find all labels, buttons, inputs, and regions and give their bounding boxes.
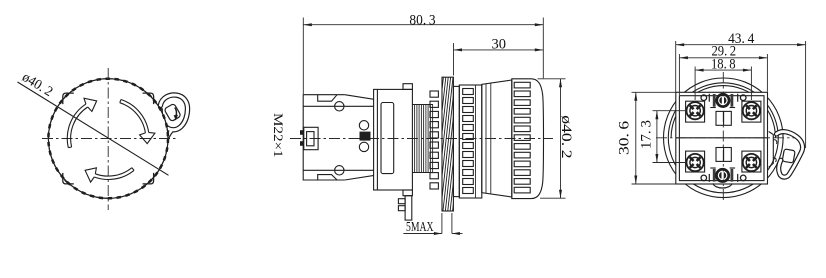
rear view: terminal screw (top-right) with pocket	[742, 101, 761, 122]
front view: rotation arrow (upper left)	[67, 104, 87, 148]
rear view: keyhole slots	[701, 94, 746, 182]
rear view: terminal screw (bottom-right) with pocket	[742, 151, 761, 172]
side view: mounting thread M22	[412, 105, 433, 173]
rear view: dimension 29.2	[679, 43, 767, 95]
front view: release latch lever (right side)	[160, 95, 187, 143]
side view: panel cross-section (hatched)	[428, 72, 487, 216]
side view: switch body	[359, 84, 412, 196]
side view: button base ring A	[453, 86, 459, 196]
rear view: body circles	[664, 78, 784, 198]
side view: horizontal centerline	[290, 138, 553, 140]
rear view: center screw (top) with notch	[710, 94, 735, 108]
rear view: terminal screw (bottom-left) with pocket	[686, 151, 705, 172]
side view: toothed lock ring	[430, 91, 438, 189]
side view: mid drum	[482, 80, 512, 197]
side view: latch boss on block	[300, 127, 318, 149]
front view: knob outer circle	[48, 79, 168, 199]
side view: dimension ø40.2 (vertical)	[538, 79, 575, 198]
rear view: contact block square	[676, 92, 768, 184]
front view: vertical centerline	[107, 68, 109, 210]
svg-text:30: 30	[491, 37, 506, 53]
side view: mushroom cap	[512, 79, 544, 199]
front view: rotation arrow (upper right)	[120, 100, 149, 133]
svg-text:30. 6: 30. 6	[617, 120, 633, 155]
side view: label 5MAX with leader	[403, 213, 462, 235]
rear view: dimension 43.4	[676, 31, 806, 148]
svg-text:80. 3: 80. 3	[409, 12, 435, 28]
rear view: dimension 17.3 (vertical)	[638, 111, 686, 163]
side view: dimension 30	[454, 37, 544, 76]
rear view: vertical centerline	[722, 72, 724, 203]
front view: knob face	[48, 79, 168, 199]
svg-text:17. 3: 17. 3	[638, 120, 654, 149]
svg-text:5MAX: 5MAX	[406, 219, 434, 234]
front view: square mounting flange (hidden behind knob)	[65, 95, 152, 182]
rear view: horizontal centerline	[656, 137, 796, 139]
rear view: terminal screw (top-left) with pocket	[686, 101, 705, 122]
front view: knurled rim ticks	[48, 79, 168, 199]
rear view: dimension 18.8	[695, 56, 751, 100]
front view: horizontal centerline	[42, 138, 176, 140]
side view: button ring B with rib squares	[459, 85, 482, 198]
rear view: latch lever (right)	[769, 132, 803, 178]
svg-text:M22×1: M22×1	[271, 113, 286, 158]
side view: dimension 80.3	[303, 12, 543, 94]
rear view: dimension 30.6 (vertical)	[617, 92, 676, 184]
front view: rotation arrow (bottom)	[94, 168, 134, 180]
front view: flange corner ears	[143, 93, 154, 104]
svg-text:ø40. 2: ø40. 2	[558, 115, 574, 158]
rear view: center screw (bottom) with boss	[710, 168, 735, 188]
side view: rear terminal block	[303, 95, 374, 180]
svg-text:18. 8: 18. 8	[711, 56, 736, 72]
rear view: wiring marker rectangles	[716, 111, 731, 161]
side view: bottom mounting pin with clip	[398, 196, 411, 220]
front view: diameter leader line	[18, 82, 169, 175]
